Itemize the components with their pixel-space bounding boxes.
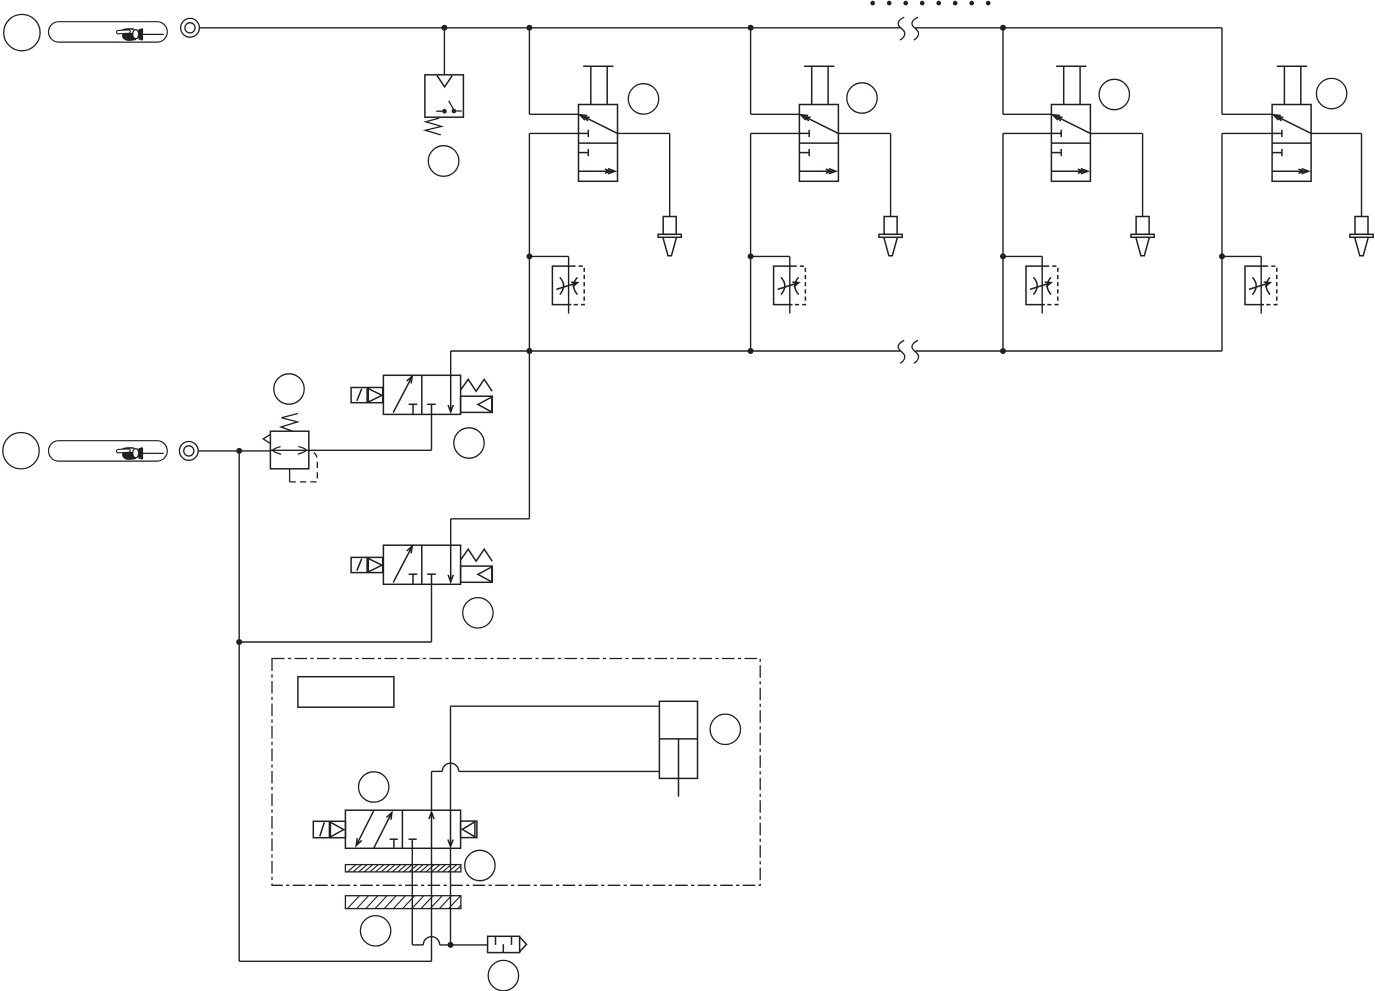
label circle (cylinder) (710, 714, 740, 744)
wire: junction to flow control 3 (1003, 256, 1042, 313)
junction on second bus (feed) (526, 348, 532, 354)
junction node (exhaust tee) (448, 942, 454, 948)
line-break squiggles on second bus (898, 340, 918, 363)
wire: regulator outlet (309, 449, 432, 451)
junction node (flow control 3 tap) (1000, 253, 1006, 259)
wire: junction to flow control 4 (1222, 256, 1261, 313)
wire: MV exhaust port down and to silencer (with hop) (412, 848, 487, 945)
pressure switch body (425, 75, 464, 117)
air blow nozzle 4 (1350, 217, 1373, 256)
label circle (SV1) (454, 428, 484, 458)
flow control (speed controller) FC1 (552, 266, 584, 305)
junction node (flow control 2 tap) (748, 253, 754, 259)
wire: top supply bus (right part) (915, 27, 1222, 29)
wire: valve 1 outlet to nozzle (618, 133, 670, 216)
junction node (flow control 4 tap) (1219, 253, 1225, 259)
wire: valve 3 lower port to flow control junction (1003, 133, 1051, 351)
wire: valve 4 lower port to flow control junction (1222, 133, 1272, 351)
junction node (left supply / SV2) (236, 639, 242, 645)
air blow nozzle 3 (1131, 217, 1154, 256)
valve 2 top position blocked port T (799, 130, 809, 137)
valve 1 plunger actuator (583, 66, 613, 104)
label circle (pressure switch) (428, 146, 459, 177)
label circle (valve 4) (1316, 78, 1346, 108)
wire: cylinder rod-side port to valve (x431.5) with crossover hop (432, 763, 660, 810)
wire: junction to flow control 1 (529, 256, 568, 313)
junction on second bus (valve 3) (1000, 348, 1006, 354)
SV1 right position blocked T (427, 404, 436, 414)
wire: second bus (left part) (451, 350, 901, 352)
wire: valve 2 outlet to nozzle (838, 133, 890, 216)
junction on bus (pressure switch tap) (441, 25, 447, 31)
manual hand valve pill 2 (left supply) (49, 441, 168, 461)
label circle (inner plate) (465, 850, 495, 880)
valve 3 bottom position blocked port T (1051, 149, 1061, 156)
wire: valve 1 lower port to flow control junction (529, 133, 578, 351)
contact point right (452, 109, 457, 114)
MV left position crossed flow arrows (356, 811, 392, 848)
valve 1 top position blocked port T (579, 130, 589, 137)
SV1 left position blocked T (409, 404, 418, 414)
SV2 pilot box (461, 566, 493, 582)
valve 2 bottom position blocked port T (799, 149, 809, 156)
valve 4 bottom position blocked port T (1272, 149, 1282, 156)
SV2 left position blocked T (409, 574, 418, 584)
MV pilot box (461, 821, 477, 838)
wire: MV down-arrow port to junction (450, 848, 452, 945)
3/2 solenoid valve SV2 body (383, 545, 460, 584)
label circle (valve 3) (1099, 79, 1129, 109)
3-port mechanical valve V3 body (1051, 105, 1090, 182)
junction on second bus (valve 1) (526, 348, 532, 354)
label circle (outer plate) (360, 916, 390, 946)
contact point left (442, 109, 447, 114)
SV2 left position flow arrow (393, 546, 412, 583)
SV1 return spring (461, 379, 493, 391)
SV2 solenoid (351, 557, 383, 572)
wire: supply drop to valve 4 (1222, 28, 1272, 115)
junction on top bus (valve 3) (1000, 25, 1006, 31)
mounting plate hatch bar (inner) (345, 865, 461, 872)
wire: bus to pressure switch (443, 28, 445, 75)
flow control (speed controller) FC3 (1026, 266, 1058, 305)
MV right position flow arrow down (448, 810, 453, 846)
valve 4 bottom position flow path (arrow right) (1272, 169, 1309, 174)
valve 1 bottom position flow path (arrow right) (579, 169, 616, 174)
valve 1 top position flow path (diagonal arrow) (580, 115, 618, 134)
junction on second bus (valve 2) (748, 348, 754, 354)
pressure regulator R (263, 414, 317, 482)
air blow nozzle 1 (658, 217, 681, 256)
junction node (left supply tee) (236, 448, 242, 454)
SV1 right position flow arrow (down) (448, 375, 453, 412)
MV left position blocked T (390, 839, 398, 848)
wire: left supply to regulator (198, 450, 270, 452)
wire: valve 4 outlet to nozzle (1311, 133, 1361, 216)
wire: second bus (right part) (915, 350, 1222, 352)
label circle (valve 1) (628, 84, 658, 114)
label circle (left supply) (3, 433, 39, 469)
5-port pilot valve MV body (345, 810, 460, 848)
wire: left supply down (lower) and bottom run (239, 642, 431, 961)
continuation dots row (top right) (870, 1, 990, 6)
SV2 return spring (461, 549, 493, 561)
regulator dashed pilot line (290, 451, 318, 482)
3-port mechanical valve V1 body (579, 105, 618, 182)
label circle (top-left) (4, 14, 40, 50)
pressure switch actuator V (437, 76, 452, 87)
SV1 solenoid (351, 388, 383, 403)
supply port double circle (top) (181, 18, 200, 37)
3/2 solenoid valve SV1 body (383, 375, 460, 414)
valve 2 bottom position flow path (arrow right) (799, 169, 836, 174)
junction on top bus (valve 2) (748, 25, 754, 31)
junction on top bus (valve 1) (526, 25, 532, 31)
SV1 left position flow arrow (393, 376, 412, 413)
wire: SV1 top port to second bus (450, 351, 452, 375)
MV solenoid (313, 821, 345, 837)
mounting plate hatch bar (outer) (345, 896, 461, 909)
wire: supply drop to valve 1 (529, 28, 578, 115)
wire: up to solenoid valve SV1 (431, 414, 433, 450)
wire: SV2 bottom port to left supply line (239, 584, 431, 642)
pressure switch spring (425, 118, 441, 135)
SV2 right position blocked T (427, 574, 436, 584)
valve 1 bottom position blocked port T (579, 149, 589, 156)
valve 4 top position flow path (diagonal arrow) (1273, 115, 1311, 134)
valve 3 bottom position flow path (arrow right) (1051, 169, 1088, 174)
wire: junction to flow control 2 (751, 256, 790, 313)
valve 2 plunger actuator (804, 66, 834, 104)
contact lead right (456, 110, 462, 112)
wire: valve 2 lower port to flow control junction (751, 133, 800, 351)
manual hand valve pill 1 (top supply) (49, 22, 168, 42)
wire: left supply down (upper) (238, 451, 240, 642)
valve 4 top position blocked port T (1272, 130, 1282, 137)
contact lead left (436, 110, 442, 112)
flow control (speed controller) FC2 (774, 266, 806, 305)
air blow nozzle 2 (879, 217, 902, 256)
label circle (SV2) (463, 598, 493, 628)
line-break squiggles on top bus (898, 17, 918, 40)
wire: feed down from second bus to SV2 (451, 351, 530, 545)
supply port double circle (left) (179, 442, 198, 461)
valve 2 top position flow path (diagonal arrow) (801, 115, 839, 134)
pressure switch PS (425, 25, 464, 135)
junction node (flow control 1 tap) (526, 253, 532, 259)
wire: cylinder head-side port to valve (x450.5) (451, 706, 660, 810)
3-port mechanical valve V2 body (799, 105, 838, 182)
dash-dot enclosure (unit assembly) (272, 659, 760, 886)
wire: supply drop to valve 2 (751, 28, 800, 115)
label circle (silencer) (488, 960, 518, 990)
flow control (speed controller) FC4 (1245, 266, 1277, 305)
MV right position blocked T (409, 839, 417, 848)
3-port mechanical valve V4 body (1272, 105, 1311, 182)
wire: supply drop to valve 3 (1003, 28, 1051, 115)
SV2 right position flow arrow (down) (448, 545, 453, 582)
regulator pilot stub (289, 469, 291, 482)
SV1 pilot box (461, 396, 493, 412)
regulator adjustment spring (281, 414, 298, 431)
switch lever (449, 101, 454, 110)
wire: top supply bus (left part) (199, 27, 901, 29)
valve 3 plunger actuator (1056, 66, 1086, 104)
label circle (regulator) (274, 374, 304, 404)
name-plate rectangle (298, 677, 394, 708)
air cylinder CYL (659, 701, 697, 796)
MV right position flow arrow up (429, 812, 434, 848)
label circle (valve 2) (847, 83, 877, 113)
valve 3 top position blocked port T (1051, 130, 1061, 137)
regulator internal arrows (273, 447, 282, 455)
label circle (5-port valve) (359, 772, 389, 802)
valve 4 plunger actuator (1277, 66, 1307, 104)
wire: valve 3 outlet to nozzle (1090, 133, 1142, 216)
valve 3 top position flow path (diagonal arrow) (1053, 115, 1091, 134)
exhaust silencer (488, 936, 527, 952)
regulator relief triangle (263, 434, 270, 443)
